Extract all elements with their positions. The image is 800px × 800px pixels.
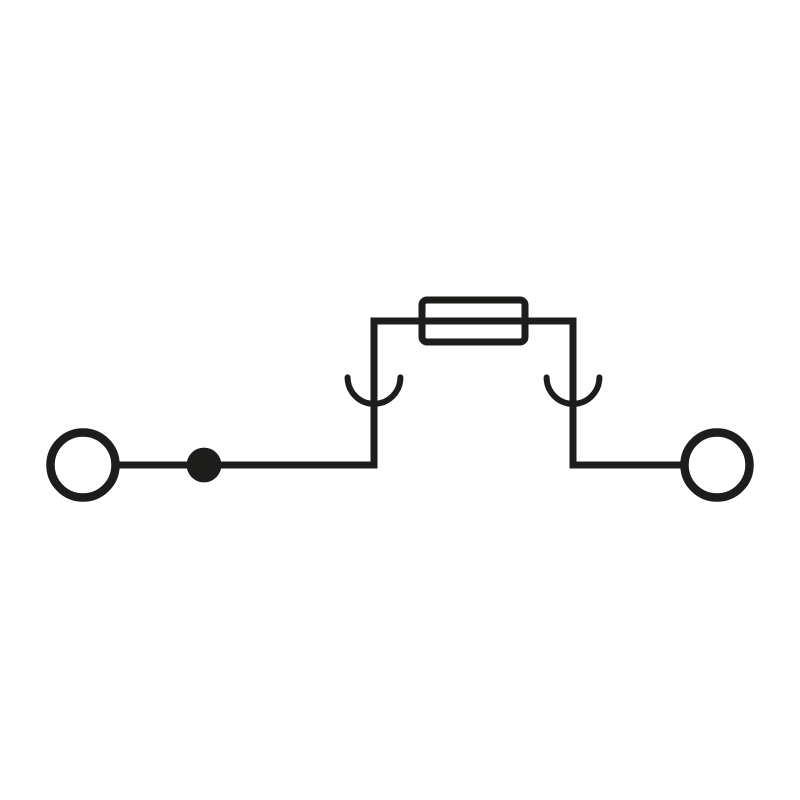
wire: right riser	[570, 318, 577, 469]
wire: left horizontal segment	[116, 462, 374, 469]
terminal contact right (circle)	[685, 433, 750, 498]
wire: fuse top horizontal	[371, 318, 577, 325]
fuse clip left (holder contact arc)	[348, 377, 401, 403]
terminal contact left (circle)	[51, 433, 116, 498]
fuse F1 (body rectangle)	[422, 300, 525, 342]
junction node (branch dot)	[187, 448, 222, 483]
wire: left riser	[371, 318, 378, 469]
wire: right horizontal segment	[573, 462, 684, 469]
fuse clip right (holder contact arc)	[547, 377, 600, 403]
